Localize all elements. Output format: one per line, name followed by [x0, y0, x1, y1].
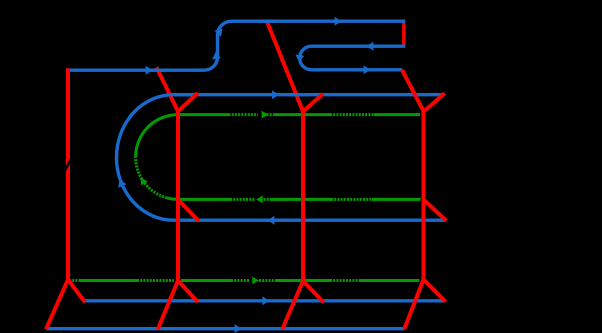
- blue arrow on B4 pointing right: [262, 296, 269, 305]
- green bottom line G3 solid part: [79, 279, 137, 282]
- blue overdraw y=94 over T2 trunk crossing: [150, 21, 307, 95]
- green jump line G1 dotted part: [229, 113, 259, 116]
- green jump line G2 solid left part (y=199.4): [178, 198, 230, 201]
- red link edge between blue top lines: [402, 21, 405, 47]
- blue arrow on B2 lower segment pointing right: [364, 65, 371, 74]
- blue bottom line B4 (y=301): [85, 299, 445, 302]
- green bottom line G3 dotted part 2: [231, 279, 250, 282]
- blue arrow on B3 y=220 run pointing left: [268, 216, 275, 225]
- blue arrow on B3 arc pointing up-left: [115, 178, 126, 188]
- green jump line G2 solid right end: [372, 198, 421, 201]
- green bottom line G3 dotted part 4: [330, 279, 359, 282]
- green bottom line G3 dotted part: [137, 279, 174, 282]
- red tree T2 right arm: [178, 93, 198, 112]
- red tree T2b right arm: [303, 94, 323, 112]
- red tree T3 mid branch: [424, 199, 447, 220]
- red tree T1 right branch: [68, 280, 85, 303]
- red tree T2b trunk: [301, 112, 305, 282]
- blue arrow on B1 S-curve upper, pointing up-right: [214, 26, 225, 37]
- red tree T3 trunk: [422, 112, 426, 280]
- red tree T2 bottom right branch: [178, 281, 198, 303]
- blue traversal path B1: left line with S-curve to top line: [46, 21, 446, 329]
- red tree T1 trunk: [46, 22, 446, 330]
- blue bottom line B5 (y=328.7): [46, 327, 405, 330]
- blue arrow on B2 U apex pointing down: [295, 55, 305, 63]
- green arrow on green C-arc pointing up-left: [138, 176, 148, 186]
- red tree T2 left arm: [157, 67, 179, 111]
- green jump line G1 solid mid part: [267, 113, 276, 116]
- green bottom line G3 solid part 2: [181, 279, 231, 282]
- blue arrow on B1 top line pointing right: [335, 17, 342, 26]
- blue overdraw y=94 over T2b arm crossing: [287, 93, 307, 96]
- blue arrow on B5 pointing right: [235, 324, 242, 333]
- blue path B2: top-right U-turn: [300, 46, 406, 70]
- blue arrow on B1 S-curve lower, pointing up: [211, 51, 221, 59]
- blue arrow on B3 y=94 run pointing right: [272, 90, 279, 99]
- green arrow on G3 pointing right: [252, 277, 259, 285]
- green jump line G1 dotted right part: [330, 113, 374, 116]
- red tree T3 right arm: [424, 93, 445, 111]
- green bottom line G3 solid end: [359, 279, 420, 282]
- black notch on T1 trunk: [65, 160, 71, 171]
- red tree T3 bottom left branch: [404, 280, 423, 330]
- green bottom line G3 solid part 3: [277, 279, 330, 282]
- green jump line G1 (solid part, y=114.6): [69, 115, 421, 281]
- red tree T2b bottom left branch: [282, 281, 303, 329]
- red tree T3 left arm: [402, 70, 424, 112]
- green arrow on G1 pointing right: [262, 111, 269, 119]
- green C-arc lower half (dashed): [136, 157, 167, 198]
- red tree T3 bottom right branch: [424, 280, 446, 302]
- red tree T1 left branch: [46, 280, 68, 330]
- blue arrow on B2 upper segment pointing left: [367, 42, 374, 51]
- green C-arc start at mid junction (solid): [167, 198, 178, 200]
- green jump line G1 solid right end: [374, 113, 420, 116]
- blue arrow on B1 left segment pointing right: [146, 66, 153, 75]
- blue overdraw y=70 over T2 arm tip: [150, 68, 165, 71]
- red tree T2 mid branch: [178, 199, 199, 221]
- red tree T2 trunk: [176, 112, 180, 281]
- red tree T2 bottom left branch: [158, 281, 178, 330]
- green jump line G2 solid mid part: [264, 198, 270, 201]
- blue path B3: big C arc with horizontal runs y=94 and y=220: [117, 95, 447, 221]
- red tree T2b bottom right branch: [303, 281, 324, 303]
- blue overdraw top line over T2b arm tip: [259, 20, 274, 23]
- red tree T2b left arm: [267, 22, 303, 112]
- green C-arc upper half (solid) to vertex of tree T2: [136, 115, 178, 157]
- green arrow on G2 pointing left: [256, 196, 263, 204]
- green jump line G2 dotted part: [230, 198, 256, 201]
- green jump line G2 dashed right part: [331, 198, 372, 201]
- green bottom line G3 dotted start (y=280.5): [69, 279, 79, 282]
- green bottom line G3 dotted part 3: [259, 279, 277, 282]
